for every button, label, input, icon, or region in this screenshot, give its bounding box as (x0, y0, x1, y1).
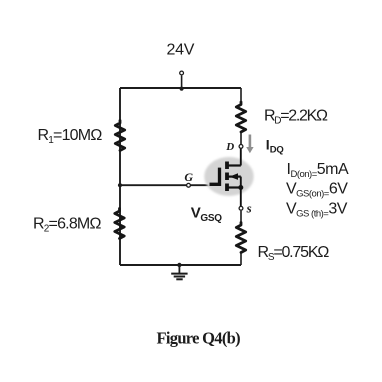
svg-text:VGSQ: VGSQ (191, 204, 223, 223)
junction: left rail / mid rail (118, 183, 122, 187)
wire: source terminal to RS and RS to bottom rail (240, 211, 242, 222)
resistor R2 (zigzag) (115, 209, 124, 239)
node G: gate terminal (open circle) (187, 183, 191, 187)
ground symbol (171, 263, 187, 280)
svg-text:s: s (246, 200, 252, 215)
svg-text:R1=10MΩ: R1=10MΩ (38, 127, 103, 146)
node S: source terminal (open circle) (239, 206, 243, 210)
wire: 24V supply stub (181, 76, 183, 89)
svg-text:R2=6.8MΩ: R2=6.8MΩ (33, 216, 101, 235)
node D: drain terminal (open circle) (239, 145, 243, 149)
svg-text:RS=0.75KΩ: RS=0.75KΩ (258, 244, 330, 263)
resistor RD (zigzag) (236, 102, 245, 132)
svg-text:RD=2.2KΩ: RD=2.2KΩ (264, 107, 328, 126)
wire: bottom rail (120, 264, 241, 266)
wire: top rail from left corner to right corner (120, 87, 241, 89)
wire: right rail top (from top rail through RD to drain terminal) (240, 88, 242, 102)
svg-text:D: D (225, 141, 234, 153)
resistor RS (zigzag) (236, 223, 245, 253)
svg-text:VGS (th)=3V: VGS (th)=3V (286, 201, 348, 220)
svg-text:Figure Q4(b): Figure Q4(b) (157, 329, 241, 348)
junction: top rail / supply stub (180, 87, 184, 91)
wire: mid rail from left rail to MOSFET gate (120, 184, 212, 186)
arrow: IDQ drain current (gray, pointing down) (246, 135, 253, 154)
svg-text:G: G (184, 170, 193, 184)
resistor R1 (zigzag) (115, 121, 124, 151)
node: 24V supply terminal (open circle) (180, 71, 184, 75)
svg-text:ID(on)=5mA: ID(on)=5mA (287, 161, 349, 180)
wire: left vertical rail (119, 88, 121, 265)
transistor M1: n-channel enhancement MOSFET with gray halo (204, 149, 253, 207)
svg-text:VGS(on)=6V: VGS(on)=6V (286, 181, 348, 200)
svg-text:IDQ: IDQ (266, 137, 284, 156)
svg-text:24V: 24V (167, 42, 195, 59)
